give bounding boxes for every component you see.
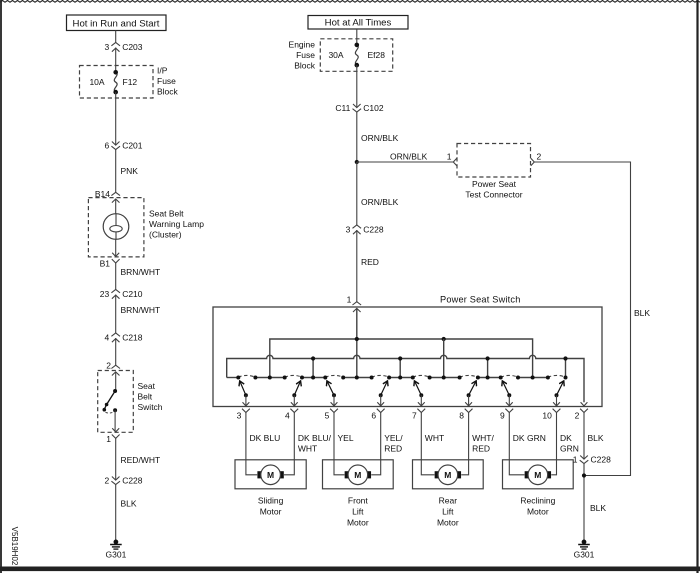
svg-text:DK: DK bbox=[560, 433, 572, 443]
svg-text:3: 3 bbox=[237, 411, 242, 421]
connector C201 pin 6 bbox=[104, 140, 142, 150]
svg-text:WHT: WHT bbox=[425, 433, 444, 443]
svg-text:Power Seat: Power Seat bbox=[472, 179, 517, 189]
bus: power bus (pin 1) bbox=[270, 339, 533, 378]
wire color label DK GRN bbox=[513, 433, 546, 443]
svg-text:Motor: Motor bbox=[260, 507, 282, 517]
svg-text:C11: C11 bbox=[335, 103, 350, 113]
svg-text:Front: Front bbox=[348, 496, 368, 506]
engine fuse block (dashed) bbox=[320, 39, 392, 72]
motor M1 (Sliding Motor) bbox=[257, 465, 283, 485]
svg-text:Fuse: Fuse bbox=[157, 76, 176, 86]
motor box Front bbox=[323, 460, 394, 489]
pin 3 exit of power seat switch bbox=[237, 395, 250, 420]
svg-text:Fuse: Fuse bbox=[296, 50, 315, 60]
svg-text:Lift: Lift bbox=[442, 507, 454, 517]
svg-text:ORN/BLK: ORN/BLK bbox=[361, 197, 399, 207]
wire BLK: pin 2 to C228 right bbox=[583, 413, 585, 460]
lamp box top connector B14 bbox=[111, 192, 120, 202]
svg-text:BRN/WHT: BRN/WHT bbox=[121, 305, 161, 315]
svg-text:1: 1 bbox=[347, 295, 352, 305]
wire: pin to motor 3 right bbox=[461, 413, 468, 475]
wire PNK: C201 to warning lamp bbox=[115, 150, 117, 193]
label Sliding Motor bbox=[258, 496, 284, 517]
pin 10 exit of power seat switch bbox=[542, 395, 560, 420]
wire color label DK/GRN bbox=[560, 433, 579, 453]
pin 2 exit of power seat switch bbox=[575, 402, 588, 420]
junction on ground bus bbox=[311, 356, 315, 360]
svg-text:10: 10 bbox=[542, 411, 552, 421]
wire: lamp to box bottom bbox=[115, 239, 117, 256]
svg-text:30A: 30A bbox=[328, 50, 343, 60]
power bus drop vertical bbox=[443, 339, 445, 378]
wire color label BLK bbox=[588, 433, 604, 443]
svg-text:WHT/: WHT/ bbox=[472, 433, 494, 443]
svg-text:G301: G301 bbox=[574, 549, 595, 559]
wire: fuse F12 to C201 bbox=[115, 92, 117, 145]
label Engine Fuse Block bbox=[289, 39, 316, 70]
svg-text:Engine: Engine bbox=[289, 39, 316, 49]
svg-text:GRN: GRN bbox=[560, 443, 579, 453]
junction: pin1 on power bus bbox=[355, 337, 359, 341]
wire: fuse Ef28 to C102 bbox=[356, 65, 358, 107]
wire: switch to box bottom bbox=[114, 410, 116, 432]
svg-text:G301: G301 bbox=[106, 549, 127, 559]
svg-text:DK BLU/: DK BLU/ bbox=[298, 433, 332, 443]
wire: pin to motor 4 right bbox=[551, 413, 556, 475]
pin 7 exit of power seat switch bbox=[412, 395, 425, 420]
power seat switch box bbox=[213, 307, 602, 407]
wire RED bbox=[356, 230, 358, 302]
ground bus drop vertical bbox=[565, 359, 567, 378]
svg-text:1: 1 bbox=[447, 152, 452, 162]
svg-text:2: 2 bbox=[537, 152, 542, 162]
svg-text:M: M bbox=[354, 470, 361, 480]
svg-text:1: 1 bbox=[106, 434, 111, 444]
svg-text:Switch: Switch bbox=[138, 402, 163, 412]
svg-text:7: 7 bbox=[412, 411, 417, 421]
ground bus drop vertical bbox=[312, 359, 314, 378]
svg-text:3: 3 bbox=[346, 225, 351, 235]
switch arm pin 4 bbox=[292, 381, 300, 397]
svg-text:RED/WHT: RED/WHT bbox=[121, 455, 161, 465]
svg-text:5: 5 bbox=[325, 411, 330, 421]
svg-text:C102: C102 bbox=[363, 103, 384, 113]
lamp box bottom connector B1 bbox=[112, 253, 120, 263]
wire: C203 to fuse F12 bbox=[115, 48, 117, 73]
switch arm pin 7 bbox=[415, 381, 424, 397]
motor M3 (Rear Lift Motor) bbox=[435, 465, 461, 485]
svg-text:ORN/BLK: ORN/BLK bbox=[361, 133, 399, 143]
power seat test connector box (dashed) bbox=[457, 144, 531, 178]
switch arm pin 10 bbox=[555, 381, 564, 397]
wire: pin to motor 2 left bbox=[334, 413, 344, 475]
junction: BLK wires join bbox=[582, 473, 586, 477]
wire ORN/BLK lower bbox=[356, 162, 358, 225]
svg-text:Block: Block bbox=[157, 87, 179, 97]
label Power Seat Test Connector bbox=[465, 179, 522, 200]
switch arm pin 9 bbox=[502, 381, 511, 397]
seat belt switch bottom connector bbox=[112, 428, 120, 438]
svg-text:RED: RED bbox=[361, 257, 379, 267]
wire color label DK BLU bbox=[250, 433, 281, 443]
svg-text:6: 6 bbox=[104, 140, 109, 150]
svg-text:Lift: Lift bbox=[352, 507, 364, 517]
label Seat Belt Warning Lamp (Cluster) bbox=[149, 209, 204, 240]
switch contact row: contact dots bbox=[236, 376, 567, 380]
svg-text:Warning Lamp: Warning Lamp bbox=[149, 219, 204, 229]
pin 9 exit of power seat switch bbox=[500, 395, 513, 420]
junction: power bus drop bbox=[442, 337, 446, 341]
switch contact row: solid segments bbox=[227, 377, 548, 379]
bus: ground bus to pin 2 bbox=[227, 355, 584, 402]
pin 8 exit of power seat switch bbox=[459, 395, 472, 420]
svg-text:Belt: Belt bbox=[138, 392, 153, 402]
wire: pin to motor 1 left bbox=[246, 413, 257, 475]
label I/P Fuse Block bbox=[157, 66, 179, 97]
wire: C218 to seat belt switch bbox=[115, 338, 117, 366]
switch arm pin 5 bbox=[327, 381, 336, 397]
wire BLK: C228 to ground right bbox=[583, 464, 585, 542]
svg-text:BLK: BLK bbox=[634, 308, 650, 318]
svg-text:4: 4 bbox=[104, 333, 109, 343]
wire: header to fuse Ef28 bbox=[356, 29, 358, 45]
svg-text:2: 2 bbox=[104, 475, 109, 485]
ground G301 left bbox=[106, 540, 127, 560]
svg-text:3: 3 bbox=[104, 42, 109, 52]
svg-text:V5B19H02: V5B19H02 bbox=[10, 527, 19, 566]
svg-text:Seat: Seat bbox=[138, 381, 156, 391]
pin 6 exit of power seat switch bbox=[371, 395, 384, 420]
wire BLK left bbox=[115, 485, 117, 542]
connector C102 / C11 bbox=[335, 103, 384, 113]
lamp: seat belt warning lamp bbox=[103, 214, 129, 240]
svg-text:Rear: Rear bbox=[439, 496, 458, 506]
svg-text:BRN/WHT: BRN/WHT bbox=[121, 267, 161, 277]
fuse Ef28 30A bbox=[355, 43, 360, 68]
wire: to switch contact bbox=[115, 372, 117, 391]
ground G301 right bbox=[574, 540, 595, 560]
svg-text:Seat Belt: Seat Belt bbox=[149, 209, 184, 219]
label Reclining Motor bbox=[520, 496, 555, 517]
svg-text:2: 2 bbox=[106, 361, 111, 371]
svg-text:YEL: YEL bbox=[338, 433, 354, 443]
svg-text:RED: RED bbox=[472, 443, 490, 453]
svg-text:C228: C228 bbox=[363, 225, 384, 235]
seat belt switch box (dashed) bbox=[98, 371, 134, 433]
svg-text:Ef28: Ef28 bbox=[368, 50, 386, 60]
svg-text:C201: C201 bbox=[122, 140, 143, 150]
svg-text:C228: C228 bbox=[122, 475, 143, 485]
svg-text:F12: F12 bbox=[123, 77, 138, 87]
svg-text:RED: RED bbox=[384, 443, 402, 453]
junction on ground bus bbox=[563, 356, 567, 360]
svg-text:ORN/BLK: ORN/BLK bbox=[390, 151, 428, 161]
svg-text:Motor: Motor bbox=[347, 518, 369, 528]
svg-text:DK GRN: DK GRN bbox=[513, 433, 546, 443]
seat belt switch contacts bbox=[103, 389, 118, 413]
svg-text:Sliding: Sliding bbox=[258, 496, 284, 506]
I/P fuse block (dashed) bbox=[80, 66, 154, 99]
svg-text:8: 8 bbox=[459, 411, 464, 421]
svg-text:BLK: BLK bbox=[121, 499, 137, 509]
svg-text:BLK: BLK bbox=[588, 433, 604, 443]
svg-text:Hot in Run and Start: Hot in Run and Start bbox=[73, 18, 160, 29]
svg-text:1: 1 bbox=[573, 454, 578, 464]
wire: pin to motor 2 right bbox=[371, 413, 380, 475]
wire color label YEL bbox=[338, 433, 354, 443]
motor M2 (Front Lift Motor) bbox=[345, 465, 371, 485]
switch contact row: dashed coupling segments bbox=[238, 375, 565, 377]
switch arm pin 6 bbox=[379, 381, 388, 397]
wire: into lamp bbox=[115, 199, 117, 214]
svg-text:DK BLU: DK BLU bbox=[250, 433, 281, 443]
wire RED/WHT bbox=[115, 438, 117, 480]
wire color label WHT//RED bbox=[472, 433, 494, 453]
connector C203 pin 3 bbox=[104, 42, 142, 52]
header box: Hot at All Times bbox=[308, 16, 408, 30]
connector C228 pin 3 (middle) bbox=[346, 225, 384, 235]
wire color label WHT bbox=[425, 433, 444, 443]
svg-text:10A: 10A bbox=[89, 77, 104, 87]
connector C218 pin 4 bbox=[104, 333, 142, 343]
wire color label DK BLU//WHT bbox=[298, 433, 332, 453]
switch arm pin 8 bbox=[467, 381, 477, 397]
wire color label YEL//RED bbox=[384, 433, 403, 453]
svg-text:Reclining: Reclining bbox=[520, 496, 555, 506]
svg-text:M: M bbox=[444, 470, 451, 480]
wire ORN/BLK upper bbox=[356, 112, 358, 162]
svg-text:I/P: I/P bbox=[157, 66, 168, 76]
svg-text:23: 23 bbox=[100, 289, 110, 299]
svg-text:Motor: Motor bbox=[437, 518, 459, 528]
junction node: ORN/BLK split bbox=[355, 160, 359, 164]
svg-text:C203: C203 bbox=[122, 42, 143, 52]
junction on ground bus bbox=[398, 356, 402, 360]
svg-text:4: 4 bbox=[285, 411, 290, 421]
motor box Rear bbox=[413, 460, 484, 489]
svg-text:Block: Block bbox=[294, 60, 316, 70]
label Front Lift Motor bbox=[347, 496, 369, 528]
pin 5 exit of power seat switch bbox=[325, 395, 338, 420]
svg-text:Motor: Motor bbox=[527, 507, 549, 517]
svg-text:M: M bbox=[534, 470, 541, 480]
svg-text:C218: C218 bbox=[122, 333, 143, 343]
pin 4 exit of power seat switch bbox=[285, 395, 298, 420]
svg-text:BLK: BLK bbox=[590, 503, 606, 513]
junction on ground bus bbox=[486, 356, 490, 360]
svg-text:6: 6 bbox=[371, 411, 376, 421]
header box: Hot in Run and Start bbox=[67, 15, 167, 31]
svg-text:YEL/: YEL/ bbox=[384, 433, 403, 443]
wire BLK: test connector to ground junction bbox=[534, 162, 630, 476]
svg-text:PNK: PNK bbox=[121, 166, 139, 176]
svg-text:M: M bbox=[267, 470, 274, 480]
svg-text:B1: B1 bbox=[100, 259, 111, 269]
seat belt switch top connector bbox=[111, 365, 120, 375]
svg-text:C228: C228 bbox=[591, 454, 612, 464]
switch arm pin 3 bbox=[240, 381, 248, 397]
svg-text:9: 9 bbox=[500, 411, 505, 421]
svg-text:WHT: WHT bbox=[298, 443, 317, 453]
power seat test connector pin 1 chevron bbox=[453, 158, 457, 165]
svg-text:(Cluster): (Cluster) bbox=[149, 230, 182, 240]
svg-text:C210: C210 bbox=[122, 289, 143, 299]
power seat test connector pin 2 chevron bbox=[531, 158, 535, 165]
connector C228 pin 2 (left) bbox=[104, 475, 142, 485]
label Seat Belt Switch bbox=[138, 381, 163, 412]
svg-text:Power Seat Switch: Power Seat Switch bbox=[440, 295, 521, 305]
connector C228 pin 1 (right) bbox=[573, 454, 611, 464]
wire BRN/WHT lower bbox=[115, 295, 117, 334]
svg-text:2: 2 bbox=[575, 411, 580, 421]
wire: pin to motor 1 right bbox=[284, 413, 294, 475]
pin 1 feed vertical bbox=[356, 308, 358, 377]
connector C210 pin 23 bbox=[100, 289, 143, 299]
ground bus drop vertical bbox=[399, 359, 401, 378]
wire: pin to motor 3 left bbox=[421, 413, 434, 475]
svg-text:Hot at All Times: Hot at All Times bbox=[325, 18, 392, 29]
motor box Sliding bbox=[235, 460, 306, 489]
svg-text:Test Connector: Test Connector bbox=[465, 189, 522, 199]
label Rear Lift Motor bbox=[437, 496, 459, 528]
wire: pin to motor 4 left bbox=[509, 413, 524, 475]
power seat switch pin 1 connector bbox=[347, 295, 362, 313]
fuse F12 10A bbox=[113, 70, 118, 94]
seat belt warning lamp box (dashed) bbox=[88, 198, 143, 257]
wire ORN/BLK to test connector bbox=[357, 161, 453, 163]
ground bus drop vertical bbox=[487, 359, 489, 378]
motor box Reclining bbox=[503, 460, 574, 489]
wire: header box to C203 bbox=[115, 31, 117, 43]
wire BRN/WHT upper bbox=[115, 263, 117, 290]
motor M4 (Reclining Motor) bbox=[525, 465, 551, 485]
